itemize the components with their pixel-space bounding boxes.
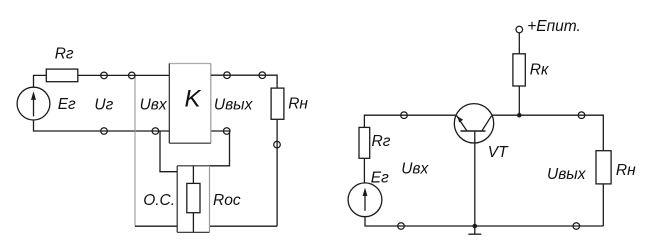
resistor Rк (collector) [513, 54, 525, 86]
arrow inside Eг [33, 99, 35, 117]
wire stub Roc top [192, 166, 194, 184]
wire collector top: transistor to output corner [492, 115, 603, 151]
svg-text:Rк: Rк [530, 62, 549, 79]
svg-text:Uвых: Uвых [214, 96, 254, 113]
terminal bottom-left 1 [101, 128, 108, 135]
resistor Rг (right circuit) [359, 127, 370, 158]
svg-text:VT: VT [488, 144, 509, 161]
feedback network O.C. box [177, 166, 209, 233]
terminal input top [401, 112, 408, 119]
wire top: source Eg up-corner to resistor Rg [34, 75, 47, 87]
amplifier K box [169, 64, 211, 144]
wire output bottom: K box to corner down to OC box top [210, 131, 230, 166]
wire top: Rg right side to K box input [78, 74, 170, 76]
terminal rail left [398, 223, 405, 230]
svg-text:Uвх: Uвх [401, 160, 429, 177]
arrow inside Eг (right) [364, 195, 366, 211]
wire output top: K box to corner then down to Rн [211, 75, 277, 88]
source Eг (generator) circle [17, 87, 50, 120]
wire feedback left branch: junction down then right to OC box [160, 131, 177, 172]
transistor VT circle [454, 104, 493, 143]
wire input top: corner to transistor emitter [364, 115, 456, 127]
bottom rail (left circuit) [135, 225, 277, 227]
wire Eг bottom to rail [364, 217, 366, 226]
transistor collector line [482, 116, 492, 131]
terminal rail right [573, 223, 580, 230]
svg-text:О.С.: О.С. [143, 192, 175, 209]
svg-text:Rос: Rос [213, 192, 241, 209]
junction emitter/ground node [473, 224, 478, 229]
svg-text:Uвых: Uвых [547, 166, 587, 183]
source Eг circle (right) [348, 183, 382, 217]
bottom rail (right circuit) [364, 225, 603, 227]
wire Rн bottom down to rail [276, 119, 278, 226]
svg-text:Eг: Eг [371, 169, 389, 186]
svg-text:Uг: Uг [94, 97, 113, 114]
svg-text:Rн: Rн [616, 162, 636, 179]
terminal top-left 2 [129, 72, 136, 79]
resistor Rос (feedback) [187, 183, 200, 212]
svg-text:Uвх: Uвх [140, 96, 168, 113]
terminal below Rн [274, 141, 281, 148]
wire stub Roc bottom [192, 213, 194, 233]
terminal output bottom [223, 128, 230, 135]
wire Rк bottom to collector node [518, 86, 520, 115]
terminal bottom-left 2 [152, 128, 159, 135]
svg-text:Rн: Rн [288, 96, 308, 113]
ground symbol [468, 226, 481, 234]
terminal output top (right circuit) [578, 112, 585, 119]
transistor base bar [461, 130, 486, 132]
terminal output top 1 [224, 72, 231, 79]
svg-text:Eг: Eг [58, 96, 76, 113]
terminal output top 2 [259, 72, 266, 79]
junction collector node [517, 113, 522, 118]
transistor emitter line with arrow [457, 116, 467, 131]
terminal +Eпит [516, 26, 523, 33]
svg-text:Rг: Rг [372, 133, 391, 150]
resistor Rн (load, left circuit) [271, 88, 284, 119]
vertical gray measurement line [134, 75, 136, 226]
resistor Rн (right circuit) [596, 151, 611, 184]
wire +Eпит down to Rк [518, 33, 520, 54]
terminal top-left 1 [101, 72, 108, 79]
svg-text:K: K [185, 86, 202, 113]
wire Rг to Eг [363, 158, 365, 183]
svg-text:Rг: Rг [55, 45, 74, 62]
wire Rн bottom to rail corner [602, 184, 604, 226]
svg-text:+Eпит.: +Eпит. [527, 18, 581, 35]
transistor base lead down to rail [474, 131, 476, 226]
wire bottom input: Eг down-corner to K box [34, 120, 170, 131]
resistor Rг (generator internal resistance) [46, 69, 78, 82]
